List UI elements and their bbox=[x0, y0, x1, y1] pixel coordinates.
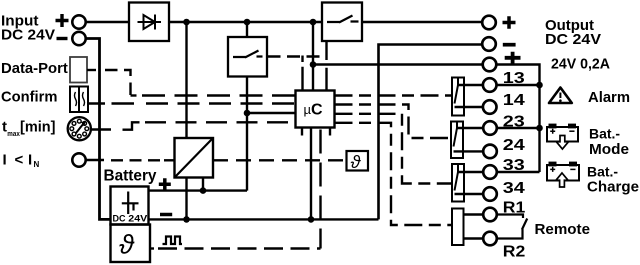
label Output DC 24V bbox=[545, 17, 601, 48]
wire 13 to riser bbox=[497, 84, 540, 86]
minus rail battery bbox=[149, 218, 379, 220]
svg-text:Charge: Charge bbox=[587, 180, 639, 196]
plus sign 0,2A bbox=[505, 52, 521, 64]
wire converter to plus rail bbox=[202, 178, 204, 191]
terminal 14 bbox=[483, 100, 497, 114]
label 23 bbox=[503, 114, 525, 131]
label 13 bbox=[503, 70, 525, 87]
svg-text:I: I bbox=[3, 151, 7, 168]
dashed uC to relay K3 bbox=[335, 114, 453, 184]
microcontroller U1 box bbox=[296, 91, 335, 128]
theta glyph battery bbox=[119, 230, 135, 260]
battery charge icon bbox=[547, 163, 579, 187]
svg-text:33: 33 bbox=[503, 157, 525, 174]
wire uC power from rail to 0,2A terminal bbox=[313, 22, 483, 91]
label Bat.-Charge bbox=[587, 164, 639, 196]
label Alarm bbox=[588, 90, 630, 106]
svg-text:Alarm: Alarm bbox=[588, 90, 630, 106]
terminal R1 bbox=[483, 208, 497, 222]
svg-text:13: 13 bbox=[503, 70, 525, 87]
Data-Port box bbox=[70, 57, 87, 83]
node top rail x247 bbox=[244, 19, 251, 26]
label Bat.-Mode bbox=[589, 126, 629, 159]
terminal 33 bbox=[483, 165, 497, 179]
wire top rail to converter bbox=[185, 22, 187, 138]
node top rail x313 bbox=[310, 19, 317, 26]
wire input+ to diode bbox=[86, 21, 129, 23]
rotary switch tmax bbox=[68, 117, 91, 140]
wire Confirm stub bbox=[88, 102, 105, 104]
battery cell symbol bbox=[122, 192, 139, 215]
remote switch wiring bbox=[497, 215, 527, 239]
terminal 34 bbox=[483, 187, 497, 201]
wire input- down to battery bbox=[86, 39, 111, 220]
node S2 uC junction bbox=[244, 110, 251, 117]
terminal 13 bbox=[483, 78, 497, 92]
terminal input - bbox=[72, 32, 85, 45]
switch S2 contact bbox=[233, 51, 263, 58]
wire S2 to plus rail and uC bbox=[247, 77, 296, 191]
label 33 bbox=[503, 157, 525, 174]
label Data-Port bbox=[1, 60, 68, 77]
wire K3 to 33 bbox=[458, 171, 483, 173]
terminal 23 bbox=[483, 121, 497, 135]
terminal 24V 0,2A + bbox=[483, 58, 497, 72]
label DC 24V in battery bbox=[113, 214, 149, 225]
theta stub bbox=[150, 247, 154, 249]
wire K1 to 14 bbox=[455, 106, 483, 108]
terminal output + bbox=[482, 16, 496, 30]
battery temperature box bbox=[111, 225, 151, 263]
relay K1 contact bbox=[455, 79, 459, 104]
dashed uC to relay K2 bbox=[335, 105, 452, 139]
plus rail battery bbox=[149, 189, 248, 191]
svg-text:Battery: Battery bbox=[104, 167, 157, 184]
terminal input + bbox=[72, 15, 85, 28]
dashed uC to relay K4 bbox=[335, 123, 453, 225]
output minus sign bbox=[503, 43, 516, 47]
dashed tmax step to uC bus C bbox=[123, 122, 140, 129]
wire 33 to riser bbox=[497, 171, 540, 173]
svg-text:Data-Port: Data-Port bbox=[1, 60, 68, 77]
Confirm buttons box bbox=[70, 87, 88, 113]
wire converter left pin bbox=[164, 159, 175, 161]
switch S2 box bbox=[228, 37, 267, 77]
node minus rail x311 bbox=[308, 216, 315, 223]
label 34 bbox=[503, 180, 525, 197]
relay K3 box bbox=[452, 164, 464, 202]
node top rail x186 bbox=[183, 19, 190, 26]
svg-text:R2: R2 bbox=[503, 244, 526, 261]
wire 0,2A to relay common riser bbox=[496, 65, 539, 173]
square wave symbol bbox=[163, 237, 183, 245]
label Remote bbox=[535, 221, 591, 238]
label R1 bbox=[503, 200, 526, 217]
svg-text:24V 0,2A: 24V 0,2A bbox=[551, 57, 611, 73]
svg-text:Bat.-: Bat.- bbox=[587, 164, 618, 180]
relay K4 box remote bbox=[452, 209, 464, 246]
converter U2 box bbox=[175, 138, 214, 178]
label Input DC 24V bbox=[1, 13, 55, 44]
svg-text:Bat.-: Bat.- bbox=[589, 126, 620, 142]
relay K1 box bbox=[452, 78, 464, 116]
diode D1 box bbox=[129, 3, 169, 42]
label tmax[min] bbox=[2, 119, 56, 138]
node riser y128 bbox=[536, 125, 543, 132]
svg-text:Confirm: Confirm bbox=[1, 89, 57, 106]
label 24V 0,2A bbox=[551, 57, 611, 73]
svg-text:24: 24 bbox=[503, 137, 525, 154]
wire uC to minus rail bbox=[310, 128, 312, 220]
svg-text:24V: 24V bbox=[128, 214, 148, 225]
wire rotary stub bbox=[91, 128, 111, 130]
label Battery bbox=[104, 167, 157, 184]
svg-text:Mode: Mode bbox=[589, 142, 629, 158]
svg-text:t: t bbox=[2, 119, 7, 136]
label 24 bbox=[503, 137, 525, 154]
relay K2 box bbox=[451, 122, 463, 159]
theta sensor box bbox=[347, 151, 369, 171]
svg-text:ϑ: ϑ bbox=[351, 152, 362, 172]
wire K3 to 34 bbox=[455, 193, 484, 195]
terminal output - bbox=[482, 37, 496, 51]
alarm warning triangle bbox=[549, 88, 572, 104]
svg-text:I: I bbox=[28, 151, 32, 168]
label Confirm bbox=[1, 89, 57, 106]
wire S1 to output + bbox=[362, 21, 482, 23]
wire S1 bottom tap to uC bbox=[325, 41, 327, 91]
svg-text:max: max bbox=[7, 129, 20, 138]
terminal R2 bbox=[483, 232, 497, 246]
battery mode icon bbox=[547, 125, 578, 149]
wire K4 to R1 bbox=[464, 213, 484, 215]
svg-text:DC 24V: DC 24V bbox=[1, 27, 55, 44]
wire 23 to riser bbox=[497, 127, 540, 129]
uC bottom stub pin4 bbox=[329, 128, 331, 136]
relay K2 contact bbox=[454, 123, 458, 147]
wire converter to minus rail bbox=[185, 178, 187, 220]
dashed S2/S1 control line bbox=[268, 55, 327, 57]
wire K4 to R2 bbox=[464, 237, 484, 239]
dashed uC to relay K1 bbox=[335, 94, 453, 96]
svg-text:34: 34 bbox=[503, 180, 525, 197]
node x313 y64 bbox=[310, 61, 317, 68]
wire top rail diode to switch S1 bbox=[169, 21, 322, 23]
battery box bbox=[111, 187, 149, 225]
node minus rail x186 bbox=[183, 216, 190, 223]
uC bottom stub pin1 bbox=[301, 128, 303, 136]
label R2 bbox=[503, 244, 526, 261]
label uC bbox=[304, 102, 324, 119]
dashed I<IN to converter bbox=[111, 159, 166, 161]
wire uC top pin1 bbox=[301, 56, 303, 91]
terminal 24 bbox=[483, 145, 497, 159]
converter diagonal bbox=[175, 138, 214, 178]
dashed Confirm to uC bus B bbox=[112, 102, 135, 104]
switch S1 contact bbox=[327, 16, 359, 23]
wire K1 to 13 bbox=[458, 84, 483, 86]
svg-text:<: < bbox=[15, 151, 24, 168]
wire Data-Port stub bbox=[87, 69, 96, 71]
wire K2 to 24 bbox=[454, 150, 484, 152]
dashed converter to theta sensor bbox=[213, 159, 347, 161]
node plus rail bbox=[200, 187, 207, 194]
label 14 bbox=[503, 92, 525, 109]
input minus sign bbox=[57, 37, 68, 40]
relay K3 contact bbox=[455, 165, 459, 191]
theta glyph sensor bbox=[351, 152, 362, 172]
output plus sign bbox=[503, 16, 516, 29]
input plus sign bbox=[56, 14, 69, 27]
svg-text:C: C bbox=[311, 102, 323, 119]
dashed battery theta to uC bbox=[158, 247, 321, 249]
rotary pointer bbox=[76, 124, 83, 133]
svg-text:14: 14 bbox=[503, 92, 525, 109]
svg-text:DC: DC bbox=[113, 214, 126, 224]
svg-text:ϑ: ϑ bbox=[119, 230, 135, 260]
wire K2 to 23 bbox=[457, 127, 483, 129]
Confirm squiggles bbox=[75, 92, 85, 106]
diode D1 symbol bbox=[138, 15, 162, 30]
dashed vertical theta to uC bottom bbox=[319, 130, 321, 249]
label I < IN bbox=[3, 151, 40, 169]
svg-text:DC 24V: DC 24V bbox=[545, 31, 601, 48]
svg-text:23: 23 bbox=[503, 114, 525, 131]
wire output- to down-rail bbox=[379, 45, 483, 220]
terminal I<IN bbox=[72, 153, 85, 166]
switch S1 box bbox=[322, 3, 362, 42]
svg-text:[min]: [min] bbox=[20, 120, 56, 136]
battery plus sign bbox=[159, 178, 171, 190]
battery minus sign bbox=[160, 213, 172, 217]
switch S2 top pin bbox=[246, 22, 248, 37]
svg-text:N: N bbox=[34, 160, 40, 169]
node riser y85 bbox=[536, 82, 543, 89]
wire I<IN stub bbox=[86, 159, 104, 161]
dashed Data-Port to uC bus A bbox=[105, 70, 131, 96]
svg-text:Remote: Remote bbox=[535, 221, 591, 238]
